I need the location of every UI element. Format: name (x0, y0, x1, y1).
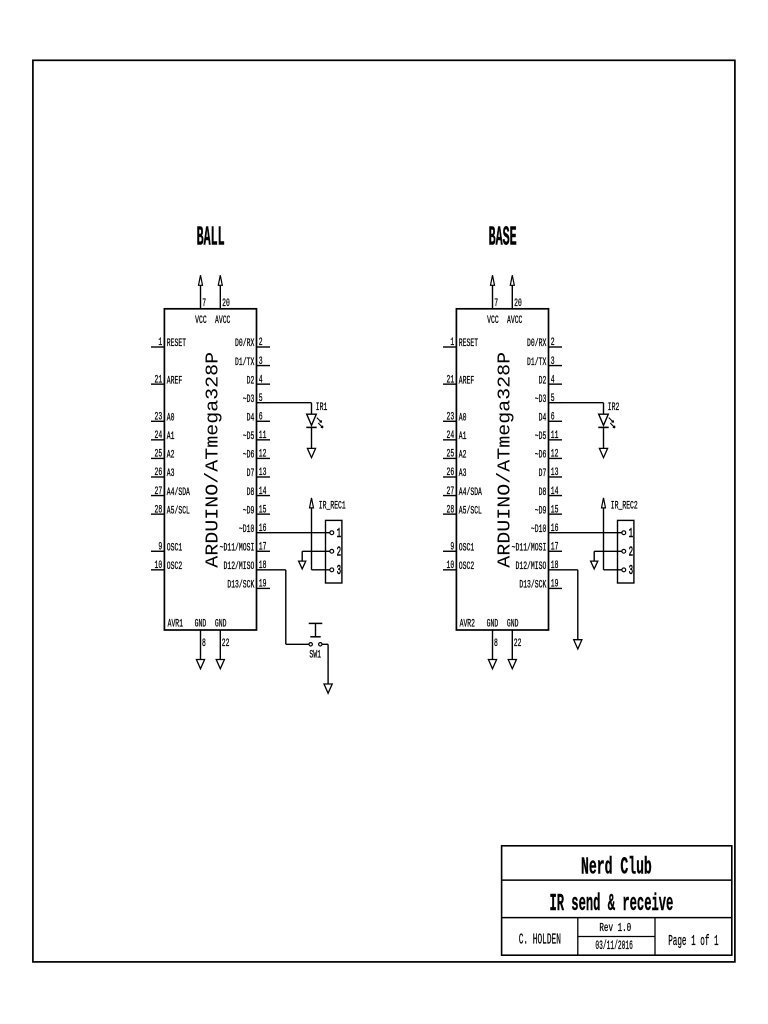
AVR2 pin 25 A2 (443, 449, 467, 462)
svg-text:AREF: AREF (167, 375, 182, 387)
svg-text:OSC1: OSC1 (167, 542, 183, 554)
svg-text:IR_REC1: IR_REC1 (319, 501, 346, 513)
ground symbol for IR_REC2 pin 2 (591, 561, 598, 569)
svg-text:GND: GND (215, 618, 227, 630)
connector IR_REC1 pin 1 (330, 527, 341, 542)
ground symbol below IR1 (307, 448, 315, 457)
AVR1 pin 13 D7 (247, 467, 270, 480)
AVR1 pin 27 A4/SDA (151, 486, 190, 499)
AVR1 pin 5 ~D3 (243, 393, 270, 406)
power flag VCC (491, 275, 495, 285)
wire IR_REC1 pin 3 to power (312, 569, 330, 571)
power flag for IR_REC2 (602, 498, 606, 570)
svg-text:15: 15 (551, 504, 559, 516)
AVR2 pin 13 D7 (539, 467, 562, 480)
svg-text:14: 14 (551, 486, 559, 498)
AVR2 pin 17 ~D11/MOSI (512, 541, 562, 554)
svg-text:28: 28 (155, 504, 163, 516)
IC AVR1 body (164, 309, 256, 630)
svg-text:27: 27 (447, 486, 455, 498)
AVR2 pin 18 D12/MISO (516, 560, 563, 573)
AVR1 pin 17 ~D11/MOSI (220, 541, 270, 554)
svg-text:D7: D7 (247, 468, 255, 480)
connector IR_REC2 pin 3 (622, 564, 633, 579)
svg-text:20: 20 (514, 298, 522, 310)
svg-text:RESET: RESET (167, 338, 186, 350)
svg-text:16: 16 (259, 523, 267, 535)
svg-text:D1/TX: D1/TX (235, 357, 254, 369)
AVR1 pin 4 D2 (247, 374, 270, 387)
svg-text:2: 2 (337, 546, 342, 561)
svg-text:10: 10 (155, 560, 163, 572)
AVR2 power pin 7 VCC (487, 285, 499, 327)
AVR1 power pin 7 VCC (195, 285, 207, 327)
switch SW1 (309, 623, 323, 646)
AVR1 pin 26 A3 (151, 467, 175, 480)
svg-text:VCC: VCC (487, 315, 499, 327)
connector IR_REC1 body (326, 520, 342, 583)
AVR1 pin 18 D12/MISO (224, 560, 271, 573)
AVR2 pin 28 A5/SCL (443, 504, 482, 517)
power flag for IR_REC1 (310, 498, 314, 570)
svg-text:D8: D8 (539, 487, 547, 499)
AVR2 pin 4 D2 (539, 374, 562, 387)
AVR2 pin 1 RESET (443, 337, 478, 350)
wire IR_REC2 pin 3 to power (604, 569, 622, 571)
svg-text:18: 18 (551, 560, 559, 572)
AVR1 pin 11 ~D5 (243, 430, 270, 443)
svg-text:D2: D2 (247, 375, 255, 387)
svg-text:15: 15 (259, 504, 267, 516)
svg-text:8: 8 (202, 638, 206, 650)
svg-text:12: 12 (259, 449, 267, 461)
power flag VCC (199, 275, 203, 285)
svg-text:25: 25 (447, 449, 455, 461)
AVR1 pin 21 AREF (151, 374, 182, 387)
svg-text:2: 2 (551, 337, 555, 349)
svg-text:D4: D4 (539, 412, 547, 424)
AVR1 pin 2 D0/RX (235, 337, 270, 350)
LED IR1 (306, 414, 323, 428)
AVR2 pin 5 ~D3 (535, 393, 562, 406)
svg-text:Nerd Club: Nerd Club (581, 855, 652, 882)
AVR1 pin 25 A2 (151, 449, 175, 462)
svg-text:27: 27 (155, 486, 163, 498)
AVR1 pin 14 D8 (247, 486, 270, 499)
power flag AVCC (510, 275, 514, 285)
AVR2 pin 16 ~D10 (531, 523, 562, 536)
connector IR_REC2 pin 2 (622, 546, 633, 561)
svg-text:AVCC: AVCC (507, 315, 523, 327)
svg-text:IR1: IR1 (316, 402, 328, 414)
svg-text:4: 4 (551, 374, 555, 386)
connector IR_REC2 pin 1 (622, 527, 633, 542)
AVR1 pin 12 ~D6 (243, 449, 270, 462)
svg-text:4: 4 (259, 374, 263, 386)
AVR2 power pin 20 AVCC (507, 285, 523, 327)
svg-text:3: 3 (629, 564, 634, 579)
AVR2 pin 26 A3 (443, 467, 467, 480)
svg-text:11: 11 (259, 430, 267, 442)
ground symbol below IR2 (599, 448, 607, 457)
AVR2 pin 10 OSC2 (443, 560, 474, 573)
AVR1 pin 28 A5/SCL (151, 504, 190, 517)
AVR2 pin 15 ~D9 (535, 504, 562, 517)
svg-text:GND: GND (195, 618, 207, 630)
svg-text:D13/SCK: D13/SCK (519, 580, 546, 592)
AVR2 pin 2 D0/RX (527, 337, 562, 350)
svg-text:A5/SCL: A5/SCL (459, 505, 482, 517)
svg-text:Page 1 of 1: Page 1 of 1 (668, 933, 718, 950)
AVR2 pin 24 A1 (443, 430, 467, 443)
svg-text:17: 17 (259, 541, 267, 553)
svg-text:3: 3 (551, 356, 555, 368)
svg-text:24: 24 (155, 430, 163, 442)
svg-text:~D3: ~D3 (243, 394, 255, 406)
svg-text:GND: GND (507, 618, 519, 630)
connector IR_REC2 body (618, 520, 634, 583)
AVR1 pin 10 OSC2 (151, 560, 182, 573)
svg-text:23: 23 (155, 411, 163, 423)
wire pin16 ~D10 to IR_REC1 pin 1 (270, 532, 330, 534)
AVR2 pin 9 OSC1 (443, 541, 474, 554)
ground symbol below SW1 (324, 684, 332, 693)
AVR2 pin 27 A4/SDA (443, 486, 482, 499)
svg-text:A1: A1 (167, 431, 175, 443)
wire pin18 D12/MISO to SW1 (270, 570, 309, 644)
svg-text:6: 6 (259, 411, 263, 423)
svg-text:A4/SDA: A4/SDA (459, 487, 482, 499)
svg-text:A4/SDA: A4/SDA (167, 487, 190, 499)
svg-text:9: 9 (158, 541, 162, 553)
ground symbol below pin 22 (508, 660, 516, 669)
wire IR_REC1 pin 2 to ground (302, 551, 330, 561)
wire SW1 to ground (322, 644, 328, 684)
svg-text:~D3: ~D3 (535, 394, 547, 406)
svg-text:~D9: ~D9 (535, 505, 547, 517)
svg-text:~D6: ~D6 (535, 450, 547, 462)
svg-text:22: 22 (222, 638, 230, 650)
svg-text:3: 3 (337, 564, 342, 579)
svg-text:19: 19 (259, 579, 267, 591)
AVR1 pin 1 RESET (151, 337, 186, 350)
svg-text:~D9: ~D9 (243, 505, 255, 517)
svg-text:OSC1: OSC1 (459, 542, 475, 554)
wire pin16 ~D10 to IR_REC2 pin 1 (562, 532, 622, 534)
svg-text:A1: A1 (459, 431, 467, 443)
AVR2 ground pin 8 GND (487, 618, 499, 659)
svg-text:24: 24 (447, 430, 455, 442)
AVR1 pin 19 D13/SCK (227, 579, 270, 592)
svg-text:2: 2 (259, 337, 263, 349)
svg-text:11: 11 (551, 430, 559, 442)
AVR1 pin 24 A1 (151, 430, 175, 443)
svg-text:IR_REC2: IR_REC2 (611, 501, 638, 513)
svg-text:~D5: ~D5 (243, 431, 255, 443)
svg-text:~D10: ~D10 (531, 524, 546, 536)
wire IR2 cathode to ground (603, 427, 605, 448)
AVR2 pin 3 D1/TX (527, 356, 562, 369)
svg-text:18: 18 (259, 560, 267, 572)
ground symbol below pin18 wire (574, 640, 582, 649)
svg-text:A3: A3 (167, 468, 175, 480)
svg-text:~D5: ~D5 (535, 431, 547, 443)
svg-text:28: 28 (447, 504, 455, 516)
svg-text:D12/MISO: D12/MISO (516, 561, 547, 573)
svg-text:7: 7 (202, 298, 206, 310)
svg-text:~D11/MOSI: ~D11/MOSI (512, 542, 547, 554)
AVR2 pin 23 A0 (443, 411, 467, 424)
svg-text:20: 20 (222, 298, 230, 310)
svg-text:~D6: ~D6 (243, 450, 255, 462)
AVR1 pin 6 D4 (247, 411, 270, 424)
svg-text:AVCC: AVCC (215, 315, 231, 327)
wire pin5 ~D3 to IR2 (562, 403, 604, 414)
svg-text:1: 1 (158, 337, 162, 349)
svg-text:RESET: RESET (459, 338, 478, 350)
AVR1 pin 9 OSC1 (151, 541, 182, 554)
svg-text:D0/RX: D0/RX (235, 338, 254, 350)
svg-text:D0/RX: D0/RX (527, 338, 546, 350)
ground symbol below pin 8 (488, 660, 496, 669)
svg-text:14: 14 (259, 486, 267, 498)
IC AVR2 body (456, 309, 548, 630)
svg-text:9: 9 (450, 541, 454, 553)
connector IR_REC1 pin 3 (330, 564, 341, 579)
svg-text:A0: A0 (167, 412, 175, 424)
AVR1 pin 15 ~D9 (243, 504, 270, 517)
svg-text:17: 17 (551, 541, 559, 553)
svg-text:5: 5 (259, 393, 263, 405)
svg-text:ARDUINO/ATmega328P: ARDUINO/ATmega328P (202, 352, 223, 568)
AVR2 pin 6 D4 (539, 411, 562, 424)
svg-text:BALL: BALL (197, 224, 225, 254)
svg-text:7: 7 (494, 298, 498, 310)
svg-text:23: 23 (447, 411, 455, 423)
svg-text:3: 3 (259, 356, 263, 368)
svg-text:GND: GND (487, 618, 499, 630)
svg-text:6: 6 (551, 411, 555, 423)
wire IR_REC2 pin 2 to ground (594, 551, 622, 561)
svg-text:D1/TX: D1/TX (527, 357, 546, 369)
svg-text:AREF: AREF (459, 375, 474, 387)
svg-text:1: 1 (629, 527, 634, 542)
ground symbol below pin 8 (196, 660, 204, 669)
AVR2 pin 11 ~D5 (535, 430, 562, 443)
svg-text:A5/SCL: A5/SCL (167, 505, 190, 517)
svg-text:12: 12 (551, 449, 559, 461)
svg-text:D12/MISO: D12/MISO (224, 561, 255, 573)
AVR1 power pin 20 AVCC (215, 285, 231, 327)
svg-text:1: 1 (450, 337, 454, 349)
connector IR_REC1 pin 2 (330, 546, 341, 561)
LED IR2 (598, 414, 615, 428)
wire pin18 D12/MISO to ground (562, 570, 578, 640)
svg-text:IR2: IR2 (608, 402, 620, 414)
svg-text:A3: A3 (459, 468, 467, 480)
svg-text:13: 13 (259, 467, 267, 479)
AVR2 pin 19 D13/SCK (519, 579, 562, 592)
svg-text:A0: A0 (459, 412, 467, 424)
AVR2 pin 14 D8 (539, 486, 562, 499)
svg-text:13: 13 (551, 467, 559, 479)
svg-text:1: 1 (337, 527, 342, 542)
svg-text:16: 16 (551, 523, 559, 535)
svg-text:IR send & receive: IR send & receive (549, 891, 673, 918)
svg-text:8: 8 (494, 638, 498, 650)
svg-text:~D11/MOSI: ~D11/MOSI (220, 542, 255, 554)
svg-text:D13/SCK: D13/SCK (227, 580, 254, 592)
ground symbol for IR_REC1 pin 2 (299, 561, 306, 569)
power flag AVCC (218, 275, 222, 285)
svg-text:26: 26 (155, 467, 163, 479)
svg-text:21: 21 (155, 374, 163, 386)
AVR1 ground pin 22 GND (215, 618, 230, 659)
title block frame (502, 846, 732, 955)
AVR2 pin 21 AREF (443, 374, 474, 387)
svg-text:Rev 1.0: Rev 1.0 (599, 922, 631, 935)
AVR2 pin 12 ~D6 (535, 449, 562, 462)
svg-text:A2: A2 (167, 450, 175, 462)
svg-text:AVR1: AVR1 (168, 618, 184, 630)
svg-text:VCC: VCC (195, 315, 207, 327)
svg-text:D2: D2 (539, 375, 547, 387)
svg-text:A2: A2 (459, 450, 467, 462)
svg-text:03/11/2016: 03/11/2016 (595, 938, 633, 953)
svg-text:21: 21 (447, 374, 455, 386)
svg-text:19: 19 (551, 579, 559, 591)
AVR1 ground pin 8 GND (195, 618, 207, 659)
ground symbol below pin 22 (216, 660, 224, 669)
svg-text:5: 5 (551, 393, 555, 405)
svg-text:ARDUINO/ATmega328P: ARDUINO/ATmega328P (494, 352, 515, 568)
svg-text:D4: D4 (247, 412, 255, 424)
svg-text:C. HOLDEN: C. HOLDEN (519, 932, 561, 949)
svg-text:~D10: ~D10 (239, 524, 254, 536)
AVR1 pin 3 D1/TX (235, 356, 270, 369)
svg-text:26: 26 (447, 467, 455, 479)
wire IR1 cathode to ground (311, 427, 313, 448)
svg-text:10: 10 (447, 560, 455, 572)
svg-text:SW1: SW1 (309, 650, 321, 662)
AVR2 ground pin 22 GND (507, 618, 522, 659)
svg-text:AVR2: AVR2 (460, 618, 475, 630)
svg-text:OSC2: OSC2 (459, 561, 474, 573)
AVR1 pin 16 ~D10 (239, 523, 270, 536)
AVR1 pin 23 A0 (151, 411, 175, 424)
svg-text:2: 2 (629, 546, 634, 561)
wire pin5 ~D3 to IR1 (270, 403, 312, 414)
svg-text:D8: D8 (247, 487, 255, 499)
svg-text:BASE: BASE (489, 224, 517, 254)
svg-text:25: 25 (155, 449, 163, 461)
svg-text:22: 22 (514, 638, 522, 650)
svg-text:D7: D7 (539, 468, 547, 480)
svg-text:OSC2: OSC2 (167, 561, 182, 573)
